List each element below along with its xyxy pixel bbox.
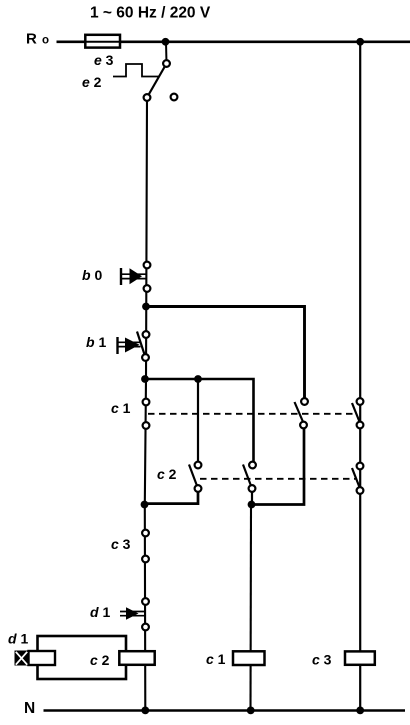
svg-text:o: o xyxy=(42,35,49,47)
svg-text:e 2: e 2 xyxy=(82,74,102,90)
svg-text:c 1: c 1 xyxy=(111,400,131,416)
svg-text:R: R xyxy=(26,31,37,48)
svg-text:c 3: c 3 xyxy=(111,536,131,552)
svg-text:c 1: c 1 xyxy=(206,651,226,667)
svg-text:c 2: c 2 xyxy=(157,466,177,482)
svg-text:b 0: b 0 xyxy=(82,267,102,283)
svg-text:b 1: b 1 xyxy=(86,334,106,350)
svg-text:c 3: c 3 xyxy=(312,652,332,668)
svg-text:e 3: e 3 xyxy=(94,52,114,68)
svg-text:c 2: c 2 xyxy=(90,652,110,668)
svg-text:d 1: d 1 xyxy=(8,631,28,647)
svg-text:N: N xyxy=(24,700,35,717)
svg-text:1 ~ 60 Hz / 220 V: 1 ~ 60 Hz / 220 V xyxy=(90,5,211,22)
svg-text:d 1: d 1 xyxy=(90,604,110,620)
